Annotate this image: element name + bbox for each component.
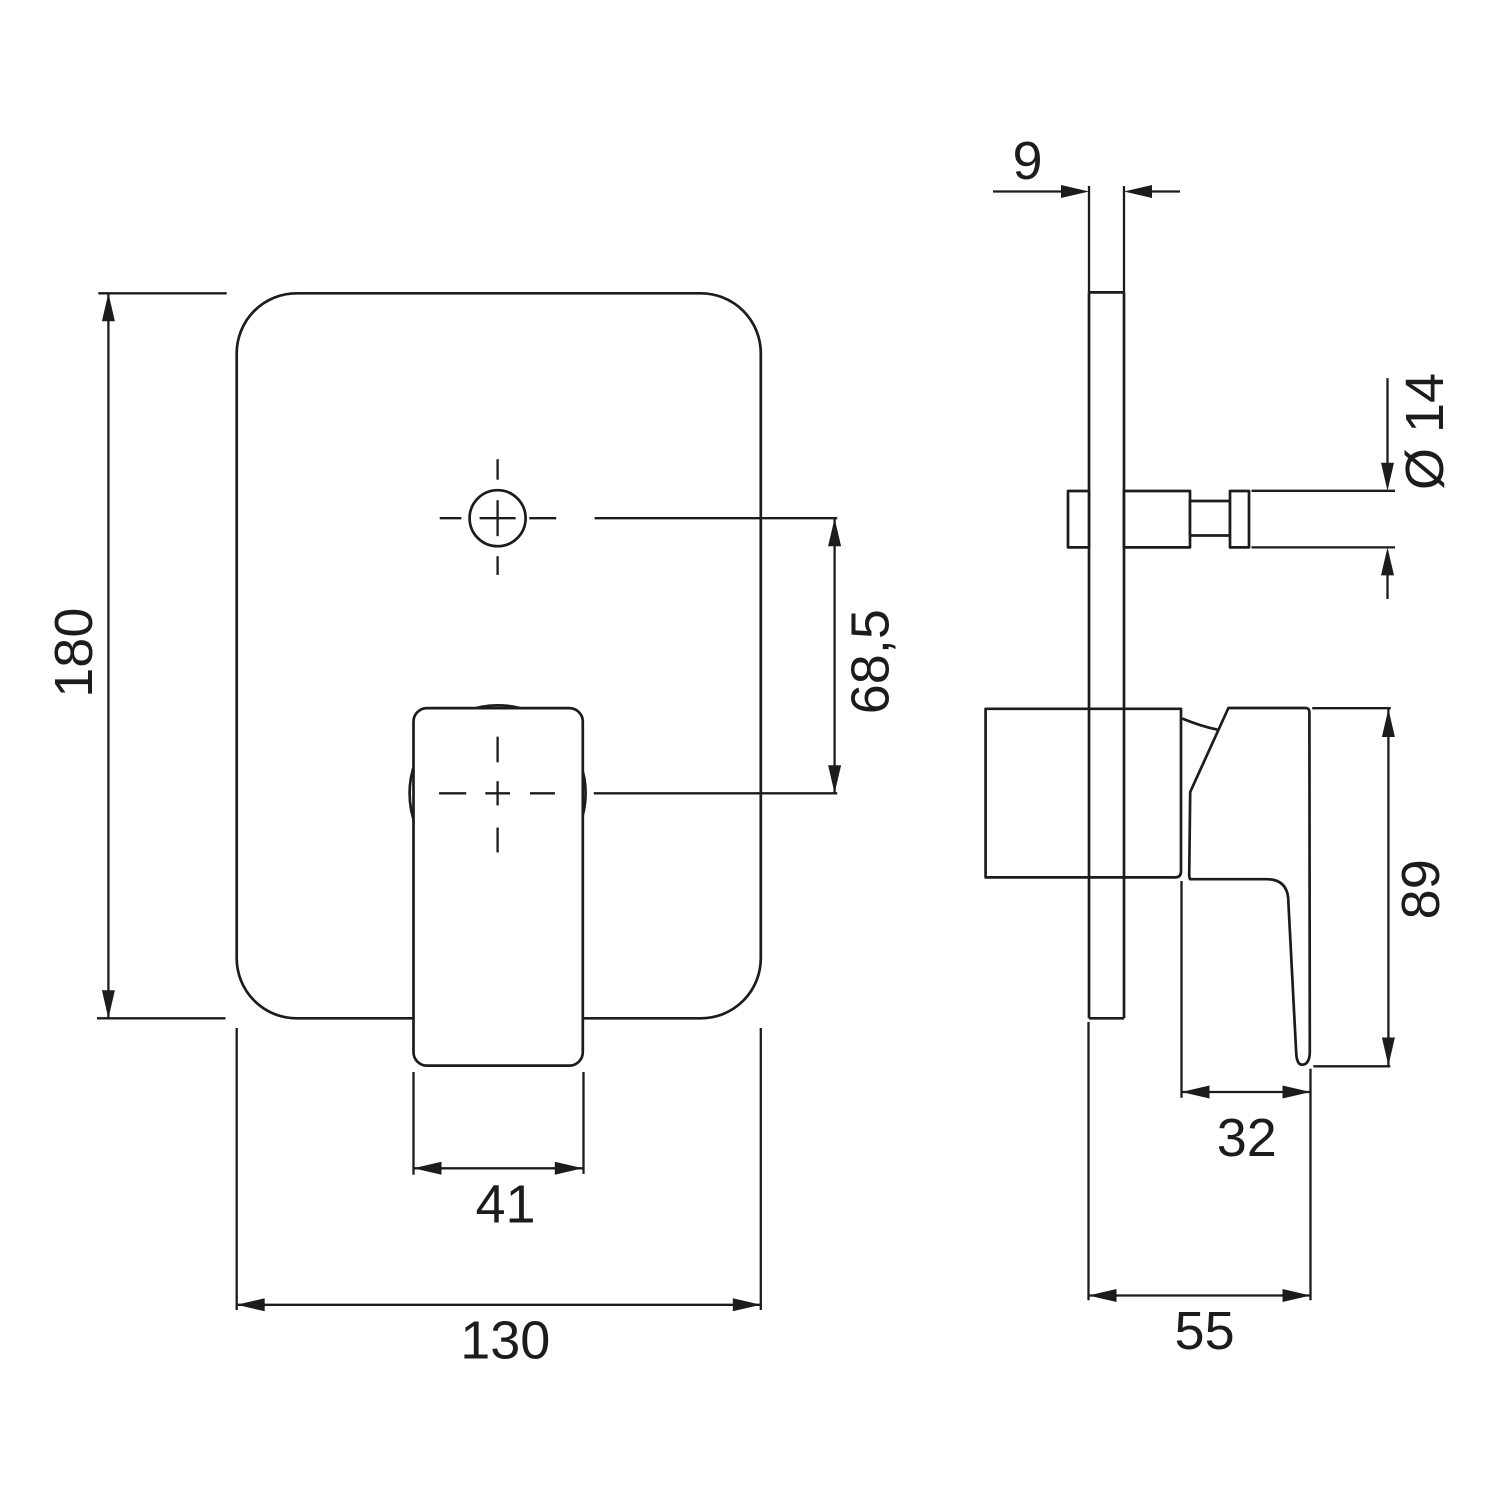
svg-text:32: 32 bbox=[1217, 1108, 1277, 1168]
svg-text:9: 9 bbox=[1012, 131, 1042, 191]
svg-text:68,5: 68,5 bbox=[841, 609, 901, 714]
svg-text:89: 89 bbox=[1391, 859, 1451, 919]
svg-text:41: 41 bbox=[475, 1174, 535, 1234]
svg-text:130: 130 bbox=[460, 1311, 550, 1371]
svg-text:180: 180 bbox=[44, 608, 104, 698]
svg-text:Ø 14: Ø 14 bbox=[1395, 373, 1455, 490]
svg-text:55: 55 bbox=[1175, 1301, 1235, 1361]
